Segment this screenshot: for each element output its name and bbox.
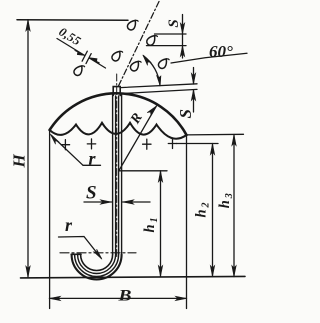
S drops arrow up — [180, 46, 184, 57]
sheet thickness extension top line — [120, 84, 197, 88]
drop spacing S dim: line 1 — [155, 33, 187, 35]
S sheet arrow down — [191, 73, 195, 84]
dimension h1 line — [160, 171, 162, 277]
dimension h3 line — [233, 135, 235, 277]
plus mark 4 — [168, 139, 176, 149]
label h1 — [142, 218, 160, 233]
svg-text:60°: 60° — [209, 42, 233, 61]
left B extension line — [49, 131, 51, 309]
h1 arrow up — [158, 171, 162, 182]
water drop d2 — [111, 48, 124, 62]
svg-text:r: r — [89, 149, 97, 169]
plus mark 1 — [61, 140, 69, 150]
water drop d5 — [129, 58, 142, 72]
r arrowhead (bottom) — [94, 249, 102, 259]
svg-text:S: S — [176, 109, 195, 118]
radius R leader line — [119, 106, 157, 171]
svg-text:h: h — [142, 224, 158, 232]
h2 arrow down — [210, 266, 214, 277]
60 deg leader — [171, 53, 247, 63]
dimension B line — [49, 297, 186, 299]
B arrow left — [49, 296, 60, 300]
baseline — [21, 276, 246, 278]
plus mark 2 — [87, 139, 95, 149]
label h2 — [193, 203, 211, 218]
top extension line — [17, 19, 128, 22]
0,55 tick 1 — [82, 51, 87, 61]
svg-text:h: h — [193, 209, 209, 217]
S dim vertical (drops) — [182, 15, 184, 59]
0,55 tick 2 — [86, 54, 91, 64]
pipe centre dash-dot line — [116, 74, 118, 258]
water drop d4 — [145, 33, 158, 47]
U-bend horizontal dash-dot centreline — [60, 252, 136, 254]
arc arrow lower — [157, 75, 161, 86]
h3 extension line — [187, 133, 244, 136]
S arrow pointing left — [123, 200, 134, 204]
plus mark 3 — [143, 139, 151, 149]
U-bend arc 2 — [75, 255, 119, 277]
S sheet arrow up — [191, 90, 195, 101]
svg-text:S: S — [166, 19, 182, 27]
h2 extension line — [177, 143, 219, 145]
arc arrow upper — [143, 55, 151, 66]
dimension h2 line — [212, 144, 214, 277]
S arrow pointing right — [100, 200, 111, 204]
0,55 second arrow — [89, 58, 105, 68]
pipe right wall — [119, 95, 122, 255]
B arrow right — [175, 296, 186, 300]
U-bend arc 3 — [78, 255, 116, 274]
umbrella dome arc — [50, 93, 187, 135]
svg-text:2: 2 — [200, 203, 211, 209]
pipe stub above dome — [113, 87, 120, 96]
U-bend inner arc — [81, 255, 113, 271]
scalloped brim edge — [50, 123, 187, 139]
R arrowhead — [147, 106, 156, 115]
svg-text:H: H — [10, 154, 29, 169]
svg-text:3: 3 — [224, 193, 235, 199]
label h3 — [217, 193, 235, 208]
svg-text:S: S — [86, 183, 97, 204]
dimension H arrow up — [26, 20, 30, 31]
h1 arrow down — [158, 266, 162, 277]
U-bend mouth caps — [71, 253, 81, 255]
svg-text:r: r — [65, 215, 73, 235]
water drop d6 — [157, 56, 170, 70]
water drop d3 — [126, 17, 139, 31]
sheet thickness extension bottom line — [121, 89, 197, 93]
60 degree arc — [144, 56, 161, 86]
dimension H arrow down — [26, 266, 30, 277]
svg-text:1: 1 — [149, 218, 160, 223]
dimension H line — [27, 20, 29, 278]
h3 arrow down — [232, 266, 236, 277]
scallop radius r leader (top) — [52, 136, 84, 166]
wall thickness S dim (pipe) right line — [123, 201, 150, 203]
water drop d1 — [73, 63, 86, 77]
bend radius r leader (bottom) — [59, 237, 102, 259]
drop trajectory dashed line — [118, 2, 159, 88]
S dim vertical (sheet) — [193, 68, 195, 113]
drop spacing S dim: line 2 — [147, 45, 187, 47]
svg-text:B: B — [117, 288, 131, 305]
wall thickness S dim (pipe) left line — [84, 201, 112, 203]
h2 arrow up — [210, 144, 214, 155]
h3 arrow up — [232, 135, 236, 146]
h1 extension line — [119, 170, 167, 172]
U-bend outer arc — [72, 255, 122, 280]
right B extension line — [186, 135, 188, 309]
svg-text:h: h — [217, 200, 233, 208]
S drops arrow down — [180, 23, 184, 34]
r arrowhead (top) — [50, 134, 58, 144]
pipe left wall — [113, 95, 116, 255]
0,55 dimension line with arrow — [57, 39, 85, 56]
